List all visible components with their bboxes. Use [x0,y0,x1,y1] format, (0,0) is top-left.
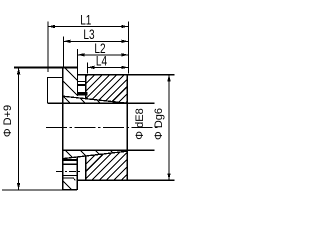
svg-text:Φ Dg6: Φ Dg6 [153,108,165,140]
hub right face [126,75,128,181]
dimension phi Dg6 [167,75,170,181]
svg-text:Φ dE8: Φ dE8 [134,108,146,139]
svg-text:L3: L3 [83,27,94,42]
screw slot line [77,81,85,83]
bushing flange right wall upper / L2 extension lower part [76,67,78,96]
hatch bushing flange upper section [0,0,212,200]
hatch hub lower section [43,0,302,200]
svg-text:L1: L1 [80,12,91,27]
flange ring outline (upper left white rect) [48,78,63,104]
bore bottom edge + dE8 bottom extension [63,149,155,151]
hatch bushing lower band [0,0,175,200]
lower screw thread thick line [63,159,77,161]
dimension phi D+9 bottom extension [2,189,63,191]
bushing flange left edge [62,67,64,189]
svg-text:Φ D+9: Φ D+9 [2,105,14,137]
screw washer black section [77,92,88,96]
hatch bushing flange lower triangle [0,0,82,200]
taper interface line upper [63,96,128,103]
hub left face lower [85,156,87,180]
lower flange right wall [76,157,78,190]
lower screw hole bottom with step [63,178,76,180]
lower screw axis dash-dot [56,170,81,172]
bore top edge + dE8 top extension [48,102,155,104]
centerline dash-dot [46,126,158,128]
dimension L1 [48,22,128,74]
lower screw thread line [63,163,77,165]
taper interface line lower [63,151,128,158]
dimension phi D+9 top extension [14,66,77,68]
hatch hub upper section [0,0,228,200]
dimension L4 [87,63,128,74]
lower screw hole line [63,174,77,176]
lower flange bottom edge [63,189,77,191]
screw slot thick line [77,84,85,86]
hub left face upper [85,75,87,99]
dimension L2 [77,49,128,96]
dimension L3 [63,36,128,66]
screw slot right wall upper [85,75,87,97]
hub top edge + Dg6 top extension [77,74,174,76]
svg-text:L4: L4 [96,53,108,68]
hub bottom edge + Dg6 bottom extension [77,179,174,181]
dimension phi D+9 line [17,67,20,189]
